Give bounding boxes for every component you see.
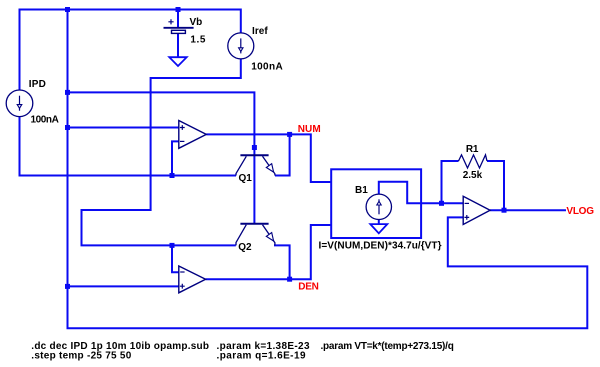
op-amp U1 minus sign <box>180 140 184 142</box>
battery Vb top plate <box>164 27 194 29</box>
node junction at battery top 178,9.5 <box>176 7 181 12</box>
wire opamp U1 output to NUM and to B1 top input <box>206 134 331 182</box>
resistor R1 zigzag <box>459 155 488 168</box>
wire Q1 emitter to NUM node <box>275 134 290 175</box>
op-amp U1 plus sign <box>180 125 185 130</box>
node junction at 67.5,286.4 <box>65 284 70 289</box>
svg-text:R1: R1 <box>466 144 479 155</box>
behavioral source B1 circle <box>366 194 391 219</box>
wire opamp U2 minus input stub <box>172 245 179 272</box>
wire Q2 emitter to DEN node <box>274 245 290 279</box>
ground under battery Vb <box>169 57 186 66</box>
ground inside B1 box <box>370 224 387 233</box>
current source Iref arrow <box>240 38 242 53</box>
svg-text:100nA: 100nA <box>31 114 59 125</box>
wire opamp U2 output to DEN and to B1 bottom input <box>206 225 332 279</box>
battery Vb plus sign <box>168 19 173 24</box>
wire top rail with left rail top and Iref top lead <box>20 10 241 91</box>
node NUM junction 289.6,134.4 <box>287 132 292 137</box>
svg-text:NUM: NUM <box>298 124 321 135</box>
current source IPD arrow <box>19 96 21 111</box>
svg-text:B1: B1 <box>355 185 368 196</box>
behavioral source B1 arrow <box>378 199 380 214</box>
transistor Q1 emitter <box>263 156 275 175</box>
wire base feed y92.4 and vertical to Q1 Q2 bases <box>68 92 255 223</box>
svg-text:.param VT=k*(temp+273.15)/q: .param VT=k*(temp+273.15)/q <box>321 341 454 352</box>
wire bias rail x67.5, bottom rail, right riser and opamp U3 plus input riser <box>68 9 588 329</box>
svg-text:I=V(NUM,DEN)*34.7u/{VT}: I=V(NUM,DEN)*34.7u/{VT} <box>319 241 442 252</box>
node DEN junction 289.6,279.2 <box>287 277 292 282</box>
battery Vb bottom plate <box>172 30 186 33</box>
wire B1 circle to internal ground <box>378 220 380 225</box>
wire Iref return path to Q2 collector <box>82 59 241 245</box>
transistor Q2 emitter arrowhead <box>266 233 273 241</box>
op-amp U1 triangle <box>179 121 207 149</box>
wire R1 left lead <box>442 161 459 203</box>
current source Iref circle <box>228 33 254 59</box>
svg-text:Iref: Iref <box>252 26 268 37</box>
op-amp U2 minus sign <box>180 271 184 273</box>
svg-text:.step temp -25 75 50: .step temp -25 75 50 <box>31 351 131 362</box>
behavioral source B1 box <box>331 169 421 238</box>
current source IPD circle <box>6 90 33 117</box>
node junction at 67.5,127.5 <box>65 125 70 130</box>
svg-text:DEN: DEN <box>298 282 319 293</box>
wire battery top lead <box>177 10 179 28</box>
op-amp U2 plus sign <box>180 284 185 289</box>
wire opamp U3 output to VLOG <box>490 209 566 211</box>
node junction opamp U1 minus 172,175.5 <box>170 173 175 178</box>
transistor Q2 collector <box>236 225 246 246</box>
svg-text:Vb: Vb <box>190 17 203 28</box>
wire opamp U1 minus input stub <box>172 141 179 175</box>
wire IPD bottom lead and Q1 collector rail <box>20 117 237 176</box>
node junction opamp U2 minus 172,245.4 <box>170 243 175 248</box>
op-amp U2 triangle <box>179 266 206 293</box>
svg-text:1.5: 1.5 <box>190 35 205 46</box>
node junction opamp U3 minus 441.5,203.3 <box>439 201 444 206</box>
svg-text:Q2: Q2 <box>238 242 252 253</box>
node junction opamp U3 output 504,210.2 <box>502 208 507 213</box>
wire battery bottom lead to ground <box>177 33 179 57</box>
transistor Q1 emitter arrowhead <box>266 164 273 172</box>
wire opamp U2 plus input <box>68 285 179 287</box>
transistor Q2 base bar <box>240 223 268 225</box>
svg-text:2.5k: 2.5k <box>463 170 483 181</box>
wire opamp U1 plus input <box>68 127 179 129</box>
transistor Q2 emitter <box>263 225 275 246</box>
node junction at 67.5,92.4 <box>65 90 70 95</box>
svg-text:.param q=1.6E-19: .param q=1.6E-19 <box>217 351 306 362</box>
node junction at 67.5,9.5 <box>65 7 70 12</box>
wire B1 internal output to opamp U3 minus input <box>379 182 463 204</box>
op-amp U3 minus sign <box>465 202 469 204</box>
op-amp U3 plus sign <box>464 215 469 220</box>
op-amp U3 triangle <box>463 196 490 224</box>
node junction Q1 base 254.4,147.5 <box>252 145 257 150</box>
svg-text:VLOG: VLOG <box>566 206 594 217</box>
transistor Q1 base bar <box>240 154 268 156</box>
svg-text:100nA: 100nA <box>251 61 283 72</box>
svg-text:IPD: IPD <box>29 79 46 90</box>
svg-text:Q1: Q1 <box>239 173 253 184</box>
transistor Q1 collector <box>236 156 246 175</box>
wire R1 right lead down to output <box>487 161 504 210</box>
